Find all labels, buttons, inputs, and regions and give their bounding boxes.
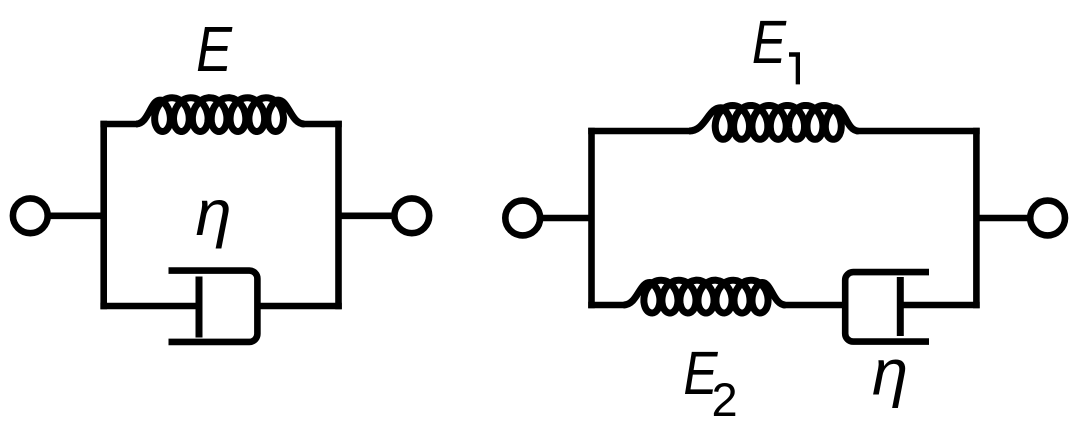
svg-text:E: E [752, 8, 787, 76]
wire lead to right terminal [339, 213, 396, 220]
wire right vertical rail (left model) [335, 121, 342, 310]
wire lead from left terminal to left rail [48, 213, 104, 220]
wire from spring E2 to dashpot cylinder [783, 302, 845, 309]
wire right vertical rail (right model) [973, 128, 980, 309]
terminal node left (left model) [13, 198, 48, 233]
wire bottom rail right segment [257, 303, 341, 310]
wire bottom rail right segment (piston rod) [900, 302, 979, 309]
label E1 subscript 1 [789, 52, 800, 84]
terminal node left (right model) [505, 201, 540, 236]
svg-text:η: η [195, 176, 231, 249]
svg-text:η: η [872, 335, 908, 408]
svg-text:E: E [196, 13, 232, 86]
wire top rail left segment [588, 128, 691, 135]
spring E [136, 98, 305, 132]
wire left vertical rail (right model) [588, 128, 595, 309]
terminal node right (right model) [1030, 201, 1065, 236]
dashpot (left model): piston plate [196, 277, 203, 338]
spring E2 [624, 280, 786, 313]
wire lead to right terminal [976, 215, 1031, 222]
wire top rail right segment [856, 128, 980, 135]
wire bottom rail left segment (dashpot piston rod) [100, 303, 199, 310]
wire lead from left terminal to left rail [540, 215, 592, 222]
wire bottom rail left segment [588, 302, 625, 309]
dashpot (right model): cylinder open to the right [845, 272, 929, 342]
wire top rail left segment [100, 121, 138, 128]
wire top rail right segment [302, 121, 342, 128]
dashpot (right model): piston plate [897, 277, 904, 336]
spring E1 [689, 106, 859, 140]
dashpot (left model): cylinder open to the left [169, 271, 258, 342]
svg-text:2: 2 [712, 373, 738, 426]
terminal node right (left model) [394, 198, 429, 233]
wire left vertical rail (left model) [100, 121, 107, 310]
